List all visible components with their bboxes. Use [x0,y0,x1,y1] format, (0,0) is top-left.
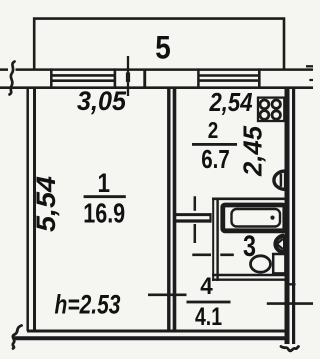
wall break squiggle bottom-left [13,326,22,349]
bottom exterior wall bottom line [14,336,288,340]
neighbour wall tick right edge [309,79,313,81]
bathroom left wall inner line [216,198,218,281]
svg-text:1: 1 [98,168,111,198]
bathtub outer rim [223,205,285,231]
door line room1-hall [148,293,187,296]
right exterior wall outer line [292,87,295,344]
svg-text:16.9: 16.9 [83,198,125,229]
toilet tank [273,254,285,273]
window W2 (2,54) left jamb [197,68,200,89]
top exterior wall band: bottom line [0,86,313,89]
balcony door jamb thickening [126,73,130,83]
fraction line kitchen [192,143,237,146]
top exterior wall band: top line [0,68,313,71]
window W2 glazing lines [198,76,260,81]
fraction line room1 [84,195,126,198]
balcony outline (room 5) [34,19,284,70]
window W1 (3,05) left jamb [50,68,53,89]
fraction line hall [187,301,231,304]
svg-text:2,54: 2,54 [209,87,253,117]
left exterior wall outer line [26,87,29,331]
window W2 right jamb [258,68,261,89]
balcony door jamb / dimension extension line [127,56,129,96]
right exterior wall inner (thick) line [285,87,290,344]
entry door line [267,302,313,305]
bathroom bottom wall top line [212,274,289,277]
right wall rung below bathroom [285,283,296,285]
svg-text:5,54: 5,54 [31,176,61,232]
balcony door opening wall cap [143,69,146,88]
bathroom outer box: top line [212,198,287,201]
bathtub drain [270,216,274,220]
wall break squiggle bottom-right [281,347,299,351]
bathroom door dashes [192,254,234,257]
svg-text:4: 4 [200,273,213,300]
toilet bowl [251,256,271,272]
neighbour balcony stub top-right [306,65,313,67]
stove [258,98,284,121]
svg-text:6.7: 6.7 [201,144,230,174]
svg-text:2,45: 2,45 [238,125,268,177]
bottom exterior wall top line [27,330,286,333]
svg-text:5: 5 [155,30,171,66]
interior wall room1/kitchen-hall left line [167,87,170,331]
kitchen-hall wall bottom line [176,219,212,222]
svg-text:3,05: 3,05 [77,86,127,116]
wall break squiggle top-left [8,67,16,86]
kitchen door leaf line [194,196,197,243]
bathroom left wall outer line [212,198,214,281]
svg-text:h=2.53: h=2.53 [55,289,121,319]
svg-text:2: 2 [208,117,219,143]
kitchen-hall wall end cap [209,213,211,222]
kitchen-hall wall top line [176,213,212,216]
bathtub basin [232,209,281,227]
svg-text:4.1: 4.1 [195,303,222,331]
bathroom bottom wall bottom line [212,279,289,281]
kitchen sink [274,171,285,189]
interior wall room1/kitchen-hall right line [173,87,177,331]
washbasin [275,236,284,253]
left exterior wall inner line [33,87,36,331]
window W1 right jamb [114,68,117,89]
window W1 glazing lines [51,75,115,80]
